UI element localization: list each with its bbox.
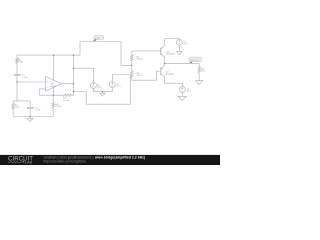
resistor R3 (131, 55, 134, 61)
resistor R2 (12, 103, 15, 109)
svg-text:15 V: 15 V (97, 87, 102, 89)
wire (93, 91, 112, 93)
ground (178, 96, 186, 100)
wire (40, 94, 64, 96)
wire (73, 55, 75, 95)
svg-text:1 kΩ: 1 kΩ (19, 62, 24, 64)
svg-text:0.1uF: 0.1uF (35, 109, 41, 111)
svg-text:=: = (24, 108, 26, 110)
wire (132, 71, 160, 80)
svg-text:15 V: 15 V (187, 91, 192, 93)
wire (74, 68, 94, 82)
wire (12, 110, 14, 117)
node v1t (73, 68, 74, 69)
svg-text:15 V: 15 V (183, 44, 188, 46)
node out2 (73, 54, 74, 55)
svg-text:100 Ω: 100 Ω (137, 75, 143, 77)
wire (40, 89, 46, 95)
wire (52, 95, 54, 102)
voltage source V4 (179, 87, 185, 93)
wire (131, 61, 133, 71)
wire (17, 54, 80, 56)
wire (198, 64, 200, 67)
node Vplus (53, 54, 54, 55)
wire (52, 108, 54, 117)
wire (29, 109, 31, 117)
svg-text:8 Ω: 8 Ω (201, 71, 205, 73)
wire (13, 100, 30, 102)
svg-text:1 kΩ: 1 kΩ (15, 107, 20, 109)
ground (196, 81, 203, 85)
node A (16, 81, 17, 82)
wire (164, 57, 166, 63)
wire (13, 116, 53, 118)
capacitor C2 (27, 107, 34, 108)
wire (178, 45, 180, 51)
voltage source V2 (109, 82, 115, 88)
wire (72, 94, 74, 96)
wire (53, 87, 55, 95)
transistor Q2 (160, 68, 162, 75)
svg-text:BC557B: BC557B (166, 74, 175, 76)
svg-text:LAB: LAB (25, 160, 33, 164)
wire (61, 83, 73, 86)
op-amp OA1 (46, 77, 62, 92)
node gnd2 (102, 91, 103, 92)
ground (177, 51, 183, 54)
svg-text:15 V: 15 V (116, 86, 121, 88)
wire (165, 78, 183, 87)
capacitor C1 (14, 74, 21, 75)
resistor R4 (131, 71, 134, 77)
wire (29, 101, 31, 107)
ground (29, 117, 31, 119)
node gnd1 (29, 116, 30, 117)
svg-text:100 Ω: 100 Ω (136, 58, 142, 60)
wire (111, 88, 113, 92)
wire (181, 93, 183, 97)
svg-text:10 kΩ: 10 kΩ (55, 106, 61, 108)
wire (165, 39, 180, 46)
wire (16, 55, 18, 58)
wire (16, 82, 18, 101)
wire (16, 63, 18, 74)
resistor R1 (16, 58, 19, 63)
wire (165, 63, 200, 65)
wire (92, 88, 94, 91)
node fb (53, 95, 54, 96)
transistor Q1 (160, 48, 162, 55)
node emitters (164, 63, 165, 64)
flag AMP_OUT (189, 61, 192, 63)
ground (102, 92, 104, 94)
wire (17, 81, 46, 83)
wire (198, 73, 200, 81)
svg-text:http://circuitlab.com/c/2jy8t2: http://circuitlab.com/c/2jy8t2w/ (43, 160, 86, 164)
svg-text:10 kΩ: 10 kΩ (63, 100, 69, 102)
node bias (131, 65, 132, 66)
voltage source V1 (90, 82, 96, 88)
flag OUT (93, 39, 97, 41)
wire (16, 76, 18, 82)
wire (132, 50, 160, 52)
wire (12, 101, 14, 103)
footer bar (0, 155, 220, 165)
wire (164, 64, 166, 66)
resistor R6 (52, 102, 55, 107)
node out1 (73, 83, 74, 84)
svg-text:BC547B: BC547B (166, 54, 175, 56)
node v2l (73, 91, 74, 92)
resistor R7 (63, 94, 72, 97)
svg-text:0.1uF: 0.1uF (22, 77, 28, 79)
svg-text:amp_out: amp_out (190, 58, 199, 61)
wire (131, 51, 133, 55)
wire (53, 55, 55, 80)
voltage source V3 (176, 39, 182, 45)
svg-text:=: = (11, 75, 13, 77)
wire (80, 42, 132, 66)
resistor R5 (198, 67, 201, 73)
wire (74, 75, 131, 105)
